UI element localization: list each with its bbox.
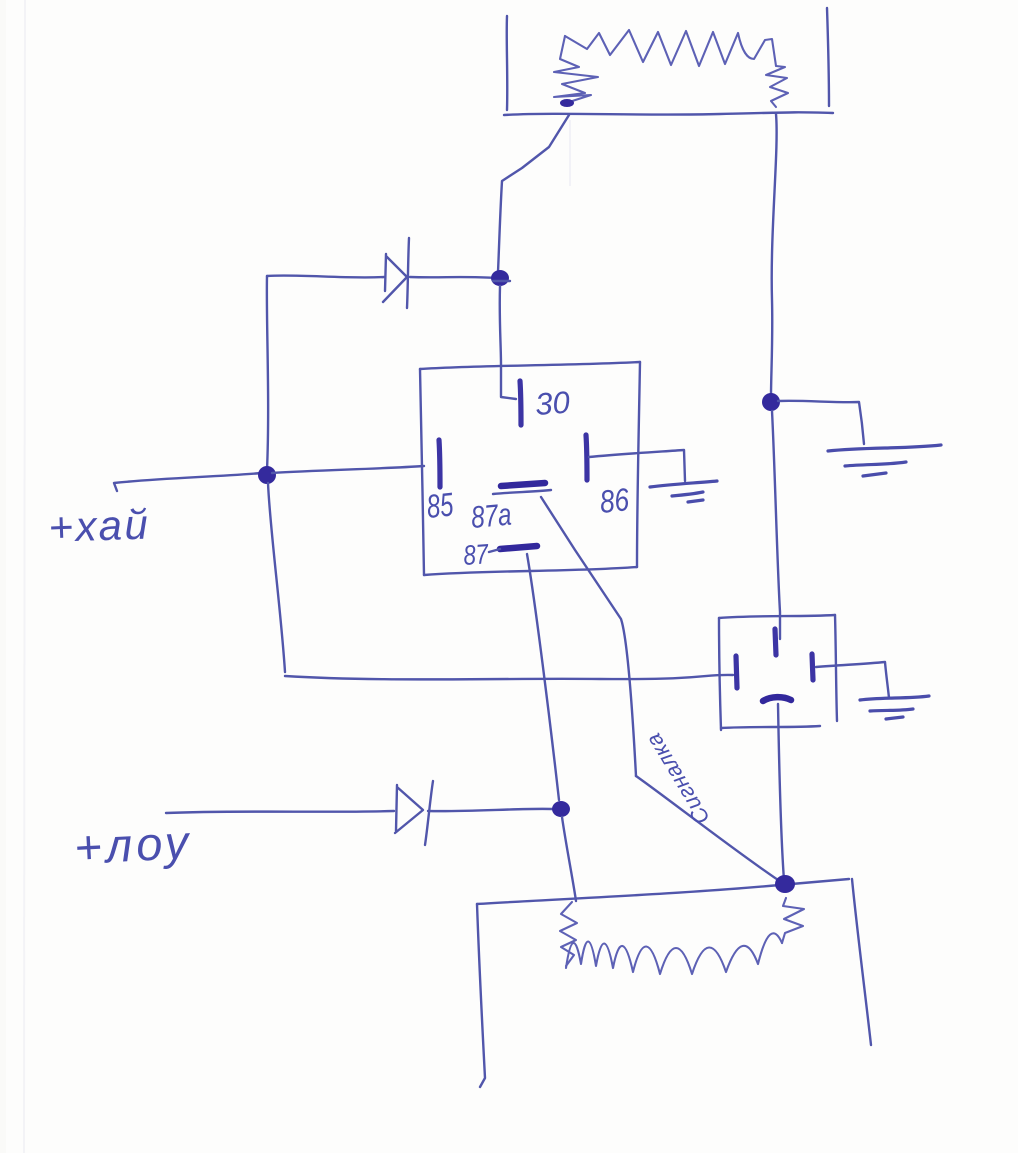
wire: K2 right pin to ground G3: [816, 662, 889, 698]
faint pen trail under filament: [569, 120, 571, 186]
svg-text:+хай: +хай: [48, 500, 151, 551]
svg-text:87: 87: [462, 539, 490, 572]
wire: 87 contact down to node C: [527, 554, 559, 800]
lamp L2 body: [477, 879, 871, 1087]
wire: lamp L1 left lead down to node A: [498, 115, 569, 272]
wire: D1 cathode to node A: [410, 277, 494, 278]
terminal +лоу lead-in wire: [166, 811, 394, 813]
wire: node A down to relay K1 pin 30: [500, 286, 516, 399]
ground G3: [860, 696, 929, 719]
wire: node C down to lamp L2: [562, 817, 576, 901]
relay K2 top pin tick: [775, 629, 776, 655]
wire: 87a contact diagonal down: [541, 497, 636, 776]
svg-text:85: 85: [425, 487, 456, 526]
lamp L1 body (high-beam load box, open top): [504, 8, 833, 115]
svg-text:86: 86: [598, 483, 631, 521]
wire: pin 86 to ground G1: [589, 450, 685, 481]
relay K1 body: [420, 362, 640, 575]
wire: D2 cathode to node C: [428, 809, 552, 811]
node D junction dot: [775, 875, 795, 893]
wire: node E to ground G2: [778, 401, 864, 444]
wire: K2 contact down to node D: [778, 704, 784, 880]
wire: riser from node B up to D1 anode loop: [267, 276, 268, 470]
wire: node B down to K2 coil feed: [268, 483, 285, 672]
svg-text:30: 30: [534, 385, 571, 422]
diode D1 (triangle + cathode bar): [383, 238, 409, 308]
node E junction dot (top right, to ground G2): [762, 393, 780, 411]
diode D2 (triangle + cathode bar): [395, 781, 433, 845]
wire: lamp L1 right lead down to node E: [771, 114, 777, 396]
lamp L1 filament coil: [554, 36, 598, 103]
wire: node B to relay K1 pin 85: [272, 466, 424, 473]
scan edge artifact left: [0, 0, 6, 1153]
signal wire diagonal to node D: [636, 776, 784, 884]
relay K2 movable contact arc: [763, 697, 791, 701]
relay K2 body: [719, 615, 837, 730]
svg-text:87a: 87a: [470, 497, 513, 535]
wire: across to relay K2 left pin: [285, 675, 733, 680]
relay K1 contact 87 dash: [500, 546, 537, 549]
relay K2 right pin tick: [812, 654, 813, 680]
relay K1 contact 87a bar: [501, 483, 545, 486]
ground G2: [828, 445, 941, 476]
relay K1 pin 86 tick: [586, 435, 587, 480]
node A junction dot: [491, 270, 509, 286]
relay K1 pin 85 tick: [439, 440, 440, 487]
relay K2 left pin tick: [736, 656, 737, 688]
lamp L2 filament coil: [560, 902, 577, 966]
svg-text:+лоу: +лоу: [73, 815, 194, 874]
node B junction dot: [258, 466, 276, 484]
terminal +хай lead-in wire: [114, 473, 262, 491]
wire: node E down to relay K2 top pin: [772, 411, 780, 639]
relay K1 pin 30 tick: [520, 381, 521, 425]
ground G1: [650, 481, 717, 502]
node C junction dot: [552, 801, 570, 817]
diode D1 anode loop: top wire from riser corner to D1: [267, 276, 384, 278]
